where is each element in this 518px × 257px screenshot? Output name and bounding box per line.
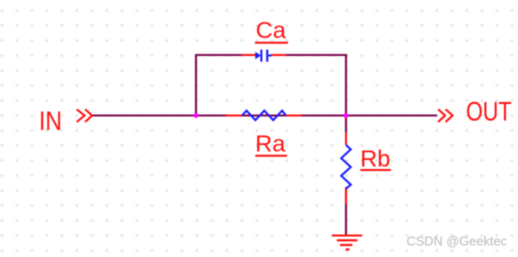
svg-text:Ra: Ra — [255, 130, 286, 156]
svg-text:Ca: Ca — [256, 17, 287, 43]
svg-text:CSDN @Geektec: CSDN @Geektec — [407, 233, 508, 248]
svg-text:OUT: OUT — [466, 97, 512, 127]
svg-text:IN: IN — [39, 106, 62, 136]
svg-text:Rb: Rb — [360, 146, 390, 172]
